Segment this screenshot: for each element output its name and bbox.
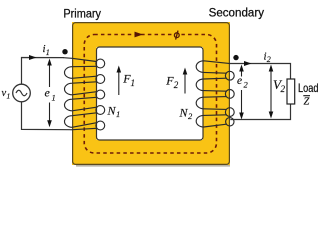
load Z bbox=[287, 79, 295, 104]
svg-text:2: 2 bbox=[174, 80, 179, 90]
svg-text:1: 1 bbox=[7, 91, 11, 100]
polarity dot (primary) bbox=[62, 49, 67, 54]
svg-text:Primary: Primary bbox=[63, 9, 101, 21]
svg-text:e: e bbox=[237, 75, 242, 87]
wire: source bottom to primary bbox=[22, 102, 71, 130]
flux path (dashed) bbox=[84, 35, 216, 154]
wire: secondary top to load bbox=[230, 64, 291, 80]
flux arrow bbox=[135, 32, 144, 38]
wire: source top to primary bbox=[22, 58, 65, 85]
e2 voltage arrow bbox=[241, 70, 243, 114]
svg-text:1: 1 bbox=[131, 78, 136, 88]
svg-text:2: 2 bbox=[267, 55, 271, 64]
phi symbol bbox=[172, 31, 181, 41]
svg-text:Load: Load bbox=[298, 81, 319, 95]
source v1 bbox=[13, 84, 31, 102]
svg-text:Z: Z bbox=[304, 97, 310, 108]
svg-text:1: 1 bbox=[116, 109, 120, 119]
svg-text:1: 1 bbox=[46, 48, 50, 57]
wire: secondary bottom to load bbox=[230, 104, 290, 120]
primary winding N1 bbox=[64, 58, 105, 130]
F2 mmf arrow bbox=[184, 72, 186, 94]
V2 voltage arrow bbox=[270, 70, 272, 114]
svg-text:e: e bbox=[45, 86, 51, 100]
svg-text:1: 1 bbox=[52, 93, 56, 103]
secondary winding N2 bbox=[196, 61, 234, 127]
e1 voltage arrow bbox=[49, 63, 51, 122]
polarity dot (secondary) bbox=[233, 55, 238, 60]
i2 current arrow bbox=[244, 61, 252, 66]
svg-text:Secondary: Secondary bbox=[209, 8, 265, 20]
svg-text:2: 2 bbox=[281, 84, 286, 94]
transformer core bbox=[72, 22, 230, 166]
i1 current arrow bbox=[29, 55, 37, 60]
svg-text:N: N bbox=[107, 104, 117, 118]
F1 mmf arrow bbox=[118, 70, 120, 96]
svg-text:N: N bbox=[179, 106, 189, 120]
